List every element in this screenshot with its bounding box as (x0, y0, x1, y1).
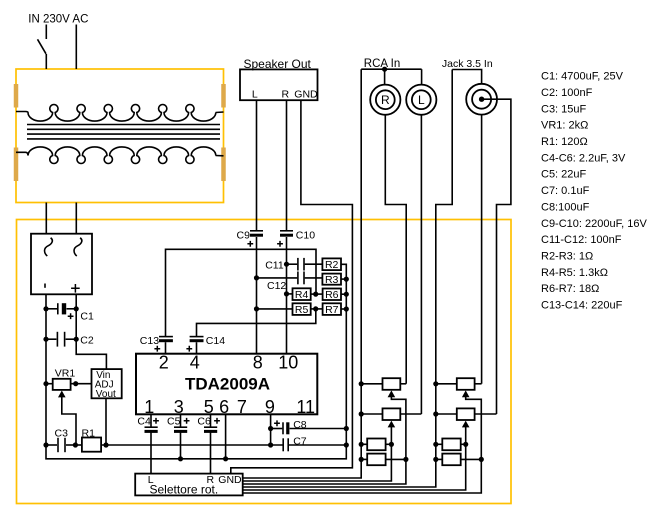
svg-text:IN 230V AC: IN 230V AC (28, 13, 88, 25)
svg-text:9: 9 (265, 397, 275, 417)
svg-text:R1: R1 (82, 427, 96, 439)
svg-text:R6: R6 (325, 289, 339, 301)
svg-text:3: 3 (174, 397, 184, 417)
svg-text:C11-C12: 100nF: C11-C12: 100nF (541, 234, 622, 246)
svg-text:10: 10 (278, 353, 298, 373)
svg-text:Jack 3.5 In: Jack 3.5 In (442, 58, 493, 70)
svg-text:C8: C8 (293, 419, 307, 431)
svg-text:Vout: Vout (96, 389, 116, 400)
svg-text:4: 4 (190, 353, 200, 373)
svg-text:GND: GND (294, 88, 318, 100)
svg-text:VR1: 2kΩ: VR1: 2kΩ (541, 120, 588, 132)
svg-text:GND: GND (218, 474, 242, 486)
svg-text:C3: C3 (55, 427, 69, 439)
svg-text:C1: C1 (80, 310, 94, 322)
svg-text:C13-C14: 220uF: C13-C14: 220uF (541, 300, 623, 312)
svg-text:C13: C13 (140, 335, 159, 347)
svg-text:C7: 0.1uF: C7: 0.1uF (541, 185, 590, 197)
svg-text:C11: C11 (265, 259, 284, 271)
svg-text:C9: C9 (237, 229, 251, 241)
svg-text:C4: C4 (137, 415, 151, 427)
svg-text:6: 6 (219, 397, 229, 417)
svg-text:R5: R5 (295, 304, 309, 316)
svg-text:R3: R3 (325, 274, 339, 286)
svg-text:R2: R2 (325, 259, 339, 271)
svg-text:8: 8 (253, 353, 263, 373)
svg-text:C7: C7 (293, 435, 307, 447)
svg-text:RCA In: RCA In (364, 58, 400, 70)
svg-text:C6: C6 (197, 415, 211, 427)
svg-text:5: 5 (204, 397, 214, 417)
svg-text:VR1: VR1 (55, 368, 76, 380)
svg-text:C10: C10 (296, 229, 315, 241)
svg-text:L: L (252, 88, 258, 100)
svg-text:R: R (381, 93, 390, 107)
svg-text:C8:100uF: C8:100uF (541, 201, 590, 213)
svg-text:R1: 120Ω: R1: 120Ω (541, 136, 588, 148)
svg-text:C5: 22uF: C5: 22uF (541, 169, 587, 181)
svg-text:C4-C6: 2.2uF, 3V: C4-C6: 2.2uF, 3V (541, 152, 626, 164)
svg-text:TDA2009A: TDA2009A (185, 374, 270, 393)
svg-text:Speaker Out: Speaker Out (244, 57, 312, 71)
svg-text:2: 2 (159, 353, 169, 373)
svg-text:R4-R5: 1.3kΩ: R4-R5: 1.3kΩ (541, 267, 608, 279)
svg-text:R7: R7 (325, 304, 339, 316)
svg-text:C12: C12 (267, 280, 286, 292)
svg-text:R4: R4 (295, 289, 309, 301)
svg-text:1: 1 (144, 397, 154, 417)
svg-text:7: 7 (237, 397, 247, 417)
svg-text:R6-R7: 18Ω: R6-R7: 18Ω (541, 283, 599, 295)
svg-text:C2: 100nF: C2: 100nF (541, 87, 593, 99)
svg-text:Selettore rot.: Selettore rot. (150, 483, 219, 497)
svg-text:11: 11 (296, 397, 315, 417)
svg-text:C9-C10: 2200uF, 16V: C9-C10: 2200uF, 16V (541, 218, 647, 230)
svg-text:C5: C5 (167, 415, 181, 427)
svg-text:R2-R3: 1Ω: R2-R3: 1Ω (541, 250, 593, 262)
svg-text:C3: 15uF: C3: 15uF (541, 103, 587, 115)
svg-text:R: R (282, 88, 290, 100)
svg-text:L: L (418, 93, 425, 107)
svg-text:C1: 4700uF, 25V: C1: 4700uF, 25V (541, 71, 624, 83)
svg-text:C14: C14 (206, 335, 225, 347)
svg-text:C2: C2 (80, 334, 94, 346)
